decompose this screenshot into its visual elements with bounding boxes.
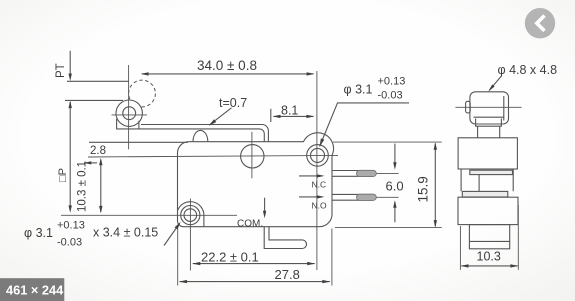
top phi3.1 underline and leader xyxy=(320,103,409,147)
right view roller centerline xyxy=(455,106,521,108)
lever arm top edge xyxy=(141,125,268,142)
N.O arrow line xyxy=(299,196,322,198)
right view bottom stem xyxy=(469,225,509,249)
top-right hole centerline vertical xyxy=(316,71,318,270)
arrowhead 34.0 left xyxy=(141,72,149,75)
10.3 dimension line xyxy=(100,160,102,212)
27.8 dimension line xyxy=(180,281,330,283)
arrowhead 22.2 right xyxy=(307,262,315,265)
6.0 upper arrow line xyxy=(394,144,396,167)
switch body outline xyxy=(178,133,334,227)
svg-text:8.1: 8.1 xyxy=(281,104,298,118)
svg-text:PT: PT xyxy=(55,63,67,78)
arrowhead 10.3 up xyxy=(99,158,102,166)
arrowhead 8.1 right xyxy=(306,115,314,118)
right view roller left nub xyxy=(466,101,471,113)
arrowhead 27.8 left xyxy=(179,280,187,283)
svg-text:10.3 ± 0.1: 10.3 ± 0.1 xyxy=(77,161,89,212)
svg-text:27.8: 27.8 xyxy=(275,267,300,282)
arrowhead OP up xyxy=(69,101,72,109)
bottom-left hole centerline vertical xyxy=(189,199,191,271)
PT upper dimension line xyxy=(69,51,71,78)
arrowhead 15.9 up xyxy=(434,142,437,150)
svg-text:N.C: N.C xyxy=(312,180,327,190)
right view roller step line xyxy=(503,96,505,121)
arrowhead PT down xyxy=(69,74,72,82)
lever bracket right edge xyxy=(138,121,140,129)
N.O terminal tab xyxy=(357,194,377,200)
back button chevron xyxy=(537,16,545,31)
svg-text:461 × 244: 461 × 244 xyxy=(6,283,64,298)
right view slot 2 xyxy=(462,191,508,197)
svg-text:2.8: 2.8 xyxy=(90,145,106,157)
bottom-left hole inner circle xyxy=(184,209,197,222)
right view lower body block xyxy=(458,197,518,224)
svg-text:φ 3.1: φ 3.1 xyxy=(24,226,53,240)
top-right hole outer circle xyxy=(307,145,329,167)
arrowhead 27.8 right xyxy=(322,280,330,283)
right view bracket xyxy=(476,119,502,127)
arrowhead 10.3 right-view left xyxy=(461,264,469,267)
10.3 right-view left extension xyxy=(459,226,461,270)
6.0 lower arrow line xyxy=(394,202,396,222)
right view recess edges xyxy=(461,169,513,191)
COM leader arrow line xyxy=(264,198,266,216)
long horizontal centerline through holes xyxy=(88,155,338,157)
2.8 top-edge extension line xyxy=(89,141,188,143)
arrowhead OP down xyxy=(69,205,72,213)
svg-text:22.2 ± 0.1: 22.2 ± 0.1 xyxy=(201,250,259,265)
arrowhead N.C right xyxy=(317,174,325,177)
plunger centerline vertical xyxy=(251,132,253,179)
svg-text:10.3: 10.3 xyxy=(477,250,501,264)
svg-text:x 3.4 ± 0.15: x 3.4 ± 0.15 xyxy=(93,226,158,240)
svg-text:t=0.7: t=0.7 xyxy=(219,96,247,110)
arrowhead 6.0 down xyxy=(393,162,396,170)
arrowhead 22.2 left xyxy=(192,262,200,265)
svg-text:+0.13: +0.13 xyxy=(378,76,406,88)
N.C arrow line xyxy=(299,175,322,177)
svg-text:15.9: 15.9 xyxy=(416,176,431,202)
arrowhead 6.0 up xyxy=(393,200,396,208)
dashed circle (lever released position) xyxy=(129,80,156,107)
size label box xyxy=(0,278,64,301)
svg-text:-0.03: -0.03 xyxy=(57,237,82,249)
right view slot 1 xyxy=(470,170,513,174)
bottom-left hole boss xyxy=(178,202,204,227)
15.9 top extension xyxy=(333,141,442,143)
roller centerline horizontal xyxy=(112,114,148,116)
34.0 dimension line xyxy=(142,73,314,75)
6.0 upper extension xyxy=(377,172,399,174)
roller inner circle xyxy=(123,107,136,120)
N.C terminal outline xyxy=(332,171,373,177)
back button circle xyxy=(525,8,555,38)
8.1 extension tick xyxy=(270,109,272,122)
svg-text:-0.03: -0.03 xyxy=(378,90,403,102)
2.8 small arrow line xyxy=(84,162,97,164)
arrowhead 34.0 right xyxy=(307,72,315,75)
arrowhead N.O right xyxy=(317,195,325,198)
arrowhead t=0.7 xyxy=(209,119,216,125)
svg-text:+0.13: +0.13 xyxy=(57,220,85,232)
right view plunger line xyxy=(478,175,480,191)
arrowhead phi4.8 leader xyxy=(488,84,494,91)
roller outer circle xyxy=(116,100,142,126)
N.C terminal tab xyxy=(357,170,377,176)
10.3 right-view dimension line xyxy=(462,265,518,267)
top-right hole inner circle xyxy=(311,148,325,162)
PT reference line A xyxy=(67,80,129,82)
bottom-left hole centerline horizontal xyxy=(61,214,237,216)
arrowhead 15.9 down xyxy=(434,220,437,228)
arrowhead 10.3 right-view right xyxy=(510,264,518,267)
t=0.7 leader xyxy=(210,108,232,125)
arrowhead 8.1 left xyxy=(273,115,281,118)
right view roller inner line xyxy=(474,116,505,118)
plunger hole circle xyxy=(241,145,264,168)
27.8 left extension xyxy=(177,229,179,286)
bottom phi3.1 leader xyxy=(164,224,180,246)
15.9 dimension line xyxy=(434,144,436,227)
svg-text:6.0: 6.0 xyxy=(386,179,404,194)
22.2 dimension line xyxy=(193,263,315,265)
10.3 right-view right extension xyxy=(517,205,519,270)
8.1 dimension line xyxy=(274,115,314,117)
svg-text:□P: □P xyxy=(57,168,69,182)
svg-text:34.0 ± 0.8: 34.0 ± 0.8 xyxy=(197,58,257,73)
arrowhead bottom phi3.1 xyxy=(175,222,181,230)
svg-text:COM.: COM. xyxy=(237,219,263,230)
OP dimension line xyxy=(69,102,71,211)
COM terminal xyxy=(264,227,306,249)
arrowhead 2.8 left xyxy=(84,161,92,164)
arrowhead COM down xyxy=(263,211,266,219)
arrowhead 10.3 down xyxy=(99,206,102,214)
N.O terminal outline xyxy=(332,194,373,200)
right view upper body block xyxy=(458,138,517,169)
roller-top reference line B xyxy=(65,99,123,101)
roller centerline vertical xyxy=(128,65,130,149)
27.8 right extension xyxy=(331,229,333,286)
svg-text:φ 3.1: φ 3.1 xyxy=(344,83,373,97)
arrowhead top phi3.1 xyxy=(320,138,325,146)
hinge bump xyxy=(193,130,208,141)
15.9 bottom extension xyxy=(335,227,442,229)
right view neck xyxy=(478,126,500,138)
lever arm bottom edge and bracket xyxy=(117,119,265,142)
right view stem inner line xyxy=(469,240,509,242)
bottom-left hole outer circle xyxy=(181,206,200,225)
6.0 lower extension xyxy=(377,196,399,198)
right view roller body xyxy=(470,92,509,124)
phi4.8 leader xyxy=(489,76,502,91)
svg-text:N.O: N.O xyxy=(312,201,328,211)
svg-text:φ 4.8 x 4.8: φ 4.8 x 4.8 xyxy=(498,63,558,77)
